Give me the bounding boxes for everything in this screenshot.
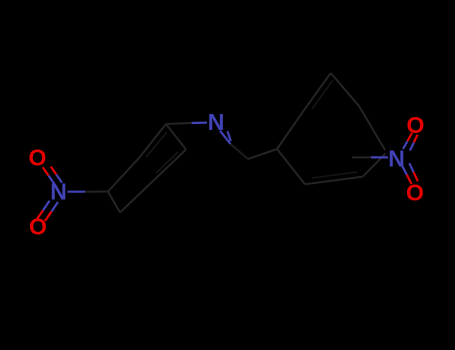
nitro N1=O2 line A red half (37, 210, 44, 219)
bond CH-D1 (dim) (248, 149, 277, 159)
left benzene ring C1-C2-C3 long side (108, 124, 166, 192)
right ring inner aromatic line lower (312, 172, 357, 178)
nitro N3=O3 line A red half (408, 133, 413, 141)
svg-text:O: O (407, 112, 425, 138)
bond C3-N2 carbon half (dim) (166, 123, 192, 124)
right benzene ring D6-D7 bottom edge (305, 177, 363, 185)
nitro N3=O3 line B red half (414, 135, 418, 143)
imine N2=CH main line blue half (220, 131, 231, 144)
right benzene ring D1-D2-D3 long side (277, 73, 331, 149)
right benzene ring D1-D6 edge (277, 149, 305, 184)
bond D5-N3 nitrogen half (blue) (371, 156, 388, 158)
svg-text:O: O (29, 145, 47, 171)
svg-text:N: N (208, 109, 225, 135)
nitro N1=O1 line B red half (51, 167, 57, 175)
nitro N1=O1 line A blue half (49, 176, 55, 184)
bond C1-N1 carbon half (dim) (85, 191, 108, 193)
bond C3-N2 nitrogen half (blue) (192, 121, 207, 124)
nitro N3=O4 line B blue half (409, 163, 413, 172)
left benzene ring cap C3-C4 (166, 124, 186, 150)
nitro N1=O2 line B blue half (52, 202, 59, 212)
left ring inner aromatic line upper (146, 132, 167, 157)
nitro N3=O3 line B blue half (410, 143, 414, 151)
right benzene ring D3-D4-D5 side (331, 73, 385, 150)
nitro N1=O1 line B blue half (56, 175, 62, 183)
imine N2=CH second line (blue) (228, 131, 231, 141)
bond C1-N1 nitrogen half (blue) (68, 191, 86, 193)
svg-text:N: N (388, 146, 405, 172)
right benzene ring D7 to bond junction (363, 154, 386, 177)
nitro N3=O4 line B red half (414, 172, 418, 181)
svg-text:O: O (406, 180, 424, 206)
nitro N1=O1 line A red half (43, 167, 49, 175)
svg-text:N: N (50, 179, 67, 205)
nitro N1=O2 line A blue half (43, 201, 50, 211)
left benzene ring cap C6-C1 (108, 192, 120, 213)
left benzene ring C4-C5-C6 long side (120, 150, 186, 213)
nitro N3=O4 line A blue half (402, 166, 407, 175)
left ring inner aromatic line lower (156, 152, 178, 173)
nitro N3=O3 line A blue half (403, 141, 408, 149)
imine N2=CH main line carbon half (dim) (231, 144, 249, 159)
bond D5-N3 carbon half (dim) (352, 156, 371, 158)
svg-text:O: O (29, 214, 47, 240)
right ring inner aromatic line upper (312, 80, 333, 109)
nitro N1=O2 line B red half (45, 212, 52, 222)
nitro N3=O4 line A red half (407, 175, 412, 184)
